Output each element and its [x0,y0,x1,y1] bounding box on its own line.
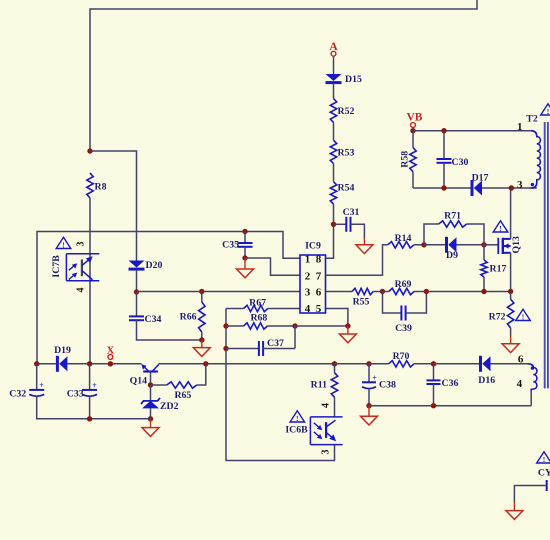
svg-text:C33: C33 [67,389,84,400]
node junction C31 [331,222,336,227]
pin number IC7B pin3 [76,242,87,247]
inductor T2 primary winding [531,131,541,188]
node junction C36 top [431,361,436,366]
svg-text:R70: R70 [393,351,410,362]
svg-text:R55: R55 [353,297,370,308]
wire ZD2 bottom [150,408,152,418]
wire D17 rail [413,187,472,189]
node junction R8 top [87,148,92,153]
node junction C38 top [366,361,371,366]
svg-text:R53: R53 [338,148,355,159]
svg-text:Q14: Q14 [130,376,148,387]
svg-text:7: 7 [316,270,322,282]
node junction R65 top [203,361,208,366]
svg-text:IC6B: IC6B [285,425,308,436]
wire net C35 rail [37,232,300,364]
node junction R17 bottom [481,289,486,294]
node junction C37 left [223,346,228,351]
resistor R54 [330,182,354,204]
svg-text:D9: D9 [446,250,458,261]
node junction R66 bottom [199,337,204,342]
wire top rail [90,0,477,151]
node junction pin5 gnd [345,323,350,328]
wire fb rail [426,291,510,293]
wire pin3 rail [137,291,301,293]
capacitor CY [514,468,550,503]
svg-text:R52: R52 [338,106,355,117]
warning triangle top right [541,104,550,116]
svg-text:IC9: IC9 [305,241,321,252]
node junction R68 left [223,323,228,328]
svg-text:R54: R54 [338,183,355,194]
warning triangle IC6B [290,411,305,423]
svg-text:C37: C37 [267,338,284,349]
transistor Q14 [130,364,159,386]
wire R14-D9 [414,244,424,246]
wire C37 right up [295,326,348,349]
node X [107,346,115,367]
node phase dot secondary [531,366,534,369]
svg-text:C39: C39 [395,323,412,334]
svg-text:3: 3 [76,242,87,247]
node junction D20 bottom [134,289,139,294]
node junction VB [410,128,415,133]
wire gate [484,244,498,246]
svg-text:CY: CY [538,468,550,479]
svg-text:2: 2 [305,270,311,282]
wire D20 to rail [136,270,138,293]
capacitor C33 [67,364,97,419]
svg-text:+: + [372,374,377,383]
node junction C36 bottom [431,403,436,408]
resistor R69 [383,279,427,295]
diode D9 [424,237,484,261]
svg-text:D20: D20 [146,260,163,271]
svg-text:6: 6 [316,287,322,299]
svg-text:C34: C34 [145,314,162,325]
diode D17 [472,173,489,197]
svg-text:VB: VB [407,112,423,124]
svg-text:4: 4 [517,378,523,390]
svg-text:4: 4 [305,303,311,315]
node junction C39 right [424,289,429,294]
node VB [407,112,423,128]
svg-text:X: X [107,346,115,357]
wire bottom rail [369,405,531,407]
svg-text:R71: R71 [444,211,461,222]
resistor R14 [388,233,414,248]
svg-text:C35: C35 [222,240,239,251]
svg-text:C30: C30 [452,157,469,168]
svg-text:4: 4 [321,403,332,408]
svg-text:C38: C38 [379,379,396,390]
resistor R65 [151,364,206,401]
svg-text:1: 1 [517,121,523,133]
pin numbers IC9 left [305,253,311,315]
wire D15-R52 [333,83,335,99]
wire rail D19-Q14 [67,363,141,365]
svg-text:!: ! [499,224,502,233]
node junction Q13 drain [509,185,514,190]
svg-text:+: + [92,381,97,390]
svg-text:5: 5 [316,303,322,315]
svg-text:A: A [329,41,338,53]
svg-text:R69: R69 [395,279,412,290]
wire R53-R54 [333,164,335,182]
wire C36-D16 [434,363,481,365]
svg-text:C32: C32 [9,389,26,400]
svg-text:R17: R17 [490,264,507,275]
op-amp U IC9 box [300,241,326,314]
resistor R68 [226,312,295,329]
node junction D9 left [421,242,426,247]
warning triangle IC7B [56,237,71,249]
capacitor C35 [222,232,252,259]
ground CY [506,502,523,519]
warning triangle Q13 [493,221,508,233]
svg-text:T2: T2 [526,114,538,125]
svg-text:R58: R58 [400,151,411,168]
node junction R66 top [199,289,204,294]
inductor T2 secondary winding [527,364,537,406]
node junction C30 bottom [441,185,446,190]
ground pin5 [339,326,356,343]
diode D19 [54,345,71,372]
svg-text:4: 4 [76,288,87,293]
diode D20 [129,260,163,271]
wire Q13 source [510,253,512,292]
svg-text:R66: R66 [180,312,197,323]
node junction C30 top [441,128,446,133]
pin number IC6B pin4 [321,403,332,408]
wire comp drop [226,309,335,461]
resistor R71 [424,211,484,245]
svg-text:3: 3 [321,450,332,455]
resistor R66 [180,292,205,341]
svg-text:3: 3 [305,287,311,299]
capacitor C30 [437,131,469,188]
node junction C33 top [87,361,92,366]
wire branch to D20 [90,151,137,261]
resistor R67 [226,298,300,312]
wire IC9 pin 5 [326,309,348,327]
wire R54-junction [326,204,334,258]
ground C35 [237,258,254,278]
svg-text:ZD2: ZD2 [160,401,179,412]
svg-text:!: ! [543,455,546,464]
svg-text:!: ! [522,313,525,322]
resistor R17 [481,245,507,292]
node junction D9 right [481,242,486,247]
svg-text:R68: R68 [250,312,267,323]
capacitor C31 [334,207,365,238]
svg-text:IC7B: IC7B [51,255,62,278]
wire D17 to T2 [482,187,537,189]
resistor R55 [326,288,383,307]
diode ZD2 [141,385,179,412]
ground C38 [361,406,378,425]
capacitor C36 [427,364,459,406]
svg-text:D16: D16 [478,375,495,386]
node junction C35 top [242,229,247,234]
node junction ZD2 bottom [148,416,153,421]
wire rail left [37,363,58,365]
wire Q13 drain [510,188,512,239]
wire Q14 base [150,372,152,386]
op-amp IC6B optocoupler [285,417,342,445]
svg-text:R14: R14 [395,233,412,244]
node junction R11 top [332,361,337,366]
svg-text:R67: R67 [249,298,266,309]
node junction rail left [34,361,39,366]
wire to IC9 pin 2 [245,258,300,275]
node junction C33 bottom [87,416,92,421]
wire rail R11-C38 [335,363,370,365]
wire R8 to IC7B [89,198,91,364]
node A [329,41,338,56]
wire pin7 to R14 [326,245,388,275]
svg-text:!: ! [547,107,550,116]
svg-text:8: 8 [316,253,322,265]
transistor Q13 [498,236,522,254]
ground R66 [193,340,210,356]
node junction Q14 base [148,382,153,387]
svg-text:C36: C36 [442,378,459,389]
svg-text:D17: D17 [472,173,489,184]
resistor R11 [311,364,338,417]
pin number IC6B pin3 [321,450,332,455]
wire rail Q14-R65 [159,363,227,365]
svg-text:+: + [39,381,44,390]
svg-text:R8: R8 [95,182,107,193]
node junction R72 top [508,289,513,294]
op-amp IC7B optocoupler [51,254,99,281]
svg-text:!: ! [296,414,299,423]
warning triangle CY [537,452,550,464]
resistor R72 [489,292,514,329]
node phase dot primary [531,183,534,186]
wire D16-T2 [491,363,528,365]
svg-text:Q13: Q13 [511,236,522,254]
wire VB rail [413,130,531,132]
resistor R8 [87,173,107,198]
wire T2 core [545,122,548,388]
resistor R53 [330,140,354,163]
ground C31 [356,238,373,254]
capacitor C34 [129,292,202,340]
svg-text:D15: D15 [345,74,362,85]
pin number IC7B pin4 [76,288,87,293]
wire A to D15 [333,56,335,74]
warning triangle R72 [516,309,531,321]
resistor R52 [330,99,354,123]
svg-text:R72: R72 [489,312,506,323]
wire R52-R53 [333,123,335,141]
pin numbers IC9 right [316,253,322,315]
ground R72 [502,328,519,353]
node junction pin2 gnd [242,255,247,260]
svg-text:1: 1 [305,253,311,265]
diode D15 [326,74,362,85]
svg-text:R65: R65 [174,390,191,401]
capacitor C37 [226,338,295,356]
capacitor C39 [383,292,427,335]
node junction R55 right [380,289,385,294]
svg-text:!: ! [62,241,65,250]
capacitor C38 [362,364,396,406]
resistor R58 [400,131,417,188]
resistor R70 [369,351,434,367]
diode D16 [478,356,495,386]
svg-text:R11: R11 [311,380,327,391]
svg-text:C31: C31 [343,207,360,218]
node junction R68 right [292,323,297,328]
transformer T2 secondary pins [517,354,524,391]
svg-text:3: 3 [517,179,523,191]
wire rail R65-R11 [226,363,335,365]
ground ZD2 [142,419,159,437]
transformer T2 label [517,114,538,192]
svg-text:D19: D19 [54,345,71,356]
node junction C38 bottom [366,403,371,408]
capacitor C32 [9,364,150,419]
